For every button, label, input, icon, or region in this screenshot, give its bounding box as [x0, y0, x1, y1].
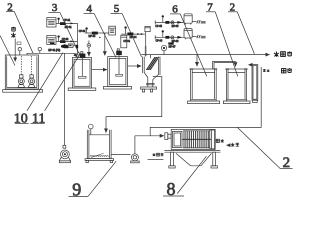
submersible pump right	[28, 56, 35, 87]
agitator of stirred tank 4	[116, 49, 123, 76]
header pipe tank2 to tank3	[27, 53, 78, 57]
dosing box A2	[47, 36, 56, 45]
inlet tag	[17, 42, 21, 45]
overflow pipe tank4 to settler	[128, 65, 142, 67]
svg-text:CP-05: CP-05	[155, 26, 162, 28]
label 6	[170, 3, 207, 76]
dosing box A1	[47, 18, 56, 27]
segmented drop pipe to settler	[145, 32, 147, 57]
gas-liquid return pipe from spray room	[150, 67, 261, 136]
dosing station 4 unit B	[155, 29, 205, 40]
dosing station 2 pump dot	[85, 27, 87, 33]
settler underflow pipe to sludge tank	[106, 77, 162, 117]
valve blob on header near pump	[168, 42, 173, 44]
label 7	[206, 2, 238, 77]
label 2 top-left	[6, 2, 33, 54]
wastewater inlet text 废水	[11, 27, 16, 38]
text 气液	[263, 69, 270, 72]
small blob near 3-leader end	[76, 45, 78, 49]
clear water header from settler to scrub tower	[141, 55, 269, 59]
sludge tank (label 9) body	[85, 130, 114, 163]
svg-text:MP-04: MP-04	[130, 37, 137, 39]
transfer pipe tank A to tank B	[213, 61, 237, 69]
dosing station 2 line	[85, 32, 109, 39]
stirred tank 4 body	[103, 57, 131, 89]
valve cluster on header	[61, 44, 68, 48]
dosing bus down to header	[77, 23, 79, 55]
svg-text:MP-05: MP-05	[172, 26, 179, 28]
small line to tank2 motor area	[73, 45, 76, 47]
text 洗涤塔	[274, 51, 292, 56]
svg-text:CP-02: CP-02	[62, 39, 69, 41]
stirred tank 3 (label 10/11 area tank) body	[68, 58, 96, 91]
aeration bumps in sludge tank	[90, 155, 109, 158]
svg-text:4: 4	[86, 3, 92, 15]
svg-text:5: 5	[114, 3, 120, 15]
svg-text:MP-03: MP-03	[89, 36, 96, 38]
svg-text:MP-07: MP-07	[169, 46, 176, 48]
sludge tank outlet	[111, 154, 131, 156]
gauge on tank 2 top	[18, 48, 21, 56]
text 滤液排 left of press	[153, 153, 164, 156]
dosing station 3 line	[121, 33, 145, 36]
dosing pump dot A2	[57, 35, 59, 41]
fitting box right of cluster	[68, 44, 73, 48]
dosing station 2 reagent box	[109, 26, 116, 35]
circulation pump circle	[161, 45, 166, 54]
label 4	[84, 3, 117, 58]
drop pipe into neutralization tank A	[196, 55, 198, 67]
text right of press upper	[216, 139, 224, 143]
label 2 bottom-right	[238, 128, 293, 171]
svg-text:MP-01: MP-01	[65, 27, 72, 29]
label 8	[163, 156, 206, 199]
svg-text:CP-01: CP-01	[64, 20, 71, 22]
svg-text:10: 10	[14, 111, 28, 126]
agitator of stirred tank 3	[79, 52, 86, 79]
svg-text:MP-01 (Pb): MP-01 (Pb)	[48, 50, 60, 52]
label 9	[69, 161, 117, 199]
svg-text:CP-03: CP-03	[79, 31, 86, 33]
drip line under text	[148, 158, 164, 160]
dosing line A2	[56, 40, 78, 43]
dosing station 3 tank box	[121, 35, 127, 48]
spray room packing column	[248, 65, 257, 103]
neutralization tank A (label 6)	[188, 69, 220, 104]
gauge on sludge tank	[89, 124, 94, 135]
press feed line	[135, 135, 164, 137]
submersible pump left	[18, 56, 25, 87]
filter press (label 8)	[164, 129, 220, 168]
dosing station 4 unit A	[155, 14, 205, 25]
gauge on header	[38, 47, 41, 53]
label 10	[14, 53, 63, 127]
scratch line in sludge tank	[91, 153, 104, 157]
label 5	[111, 3, 142, 57]
feed pump to filter press	[131, 136, 140, 163]
dosing station 3 pump dot	[124, 26, 126, 34]
dosing drop with valve circle into stirred tank 3	[87, 41, 91, 57]
dosing pump dot A1	[57, 18, 59, 24]
overflow pipe tank3 to tank4	[92, 69, 107, 71]
leader from off-canvas label at far left	[0, 36, 15, 66]
wastewater inlet pipe	[14, 39, 16, 62]
label 11	[31, 54, 80, 126]
dosing line A1	[56, 22, 78, 25]
svg-text:CP-04: CP-04	[123, 41, 130, 43]
svg-text:CP-06: CP-06	[156, 41, 163, 43]
label 2 top-right	[228, 2, 254, 54]
dosing station 3 head box	[145, 26, 150, 31]
svg-text:3: 3	[52, 2, 58, 14]
svg-text:11: 11	[32, 111, 45, 126]
tank 2 collection tank body	[3, 55, 43, 92]
svg-text:2: 2	[7, 2, 13, 14]
filtrate arrow and text 滤液 right	[226, 143, 239, 147]
neutralization tank B (label 7)	[223, 69, 250, 104]
chemical transfer pump bottom-left	[59, 54, 70, 163]
label 3	[49, 2, 79, 53]
dosing drop into stirred tank 4	[104, 33, 106, 55]
text 喷房	[282, 68, 292, 73]
inclined plate settler	[141, 57, 160, 92]
